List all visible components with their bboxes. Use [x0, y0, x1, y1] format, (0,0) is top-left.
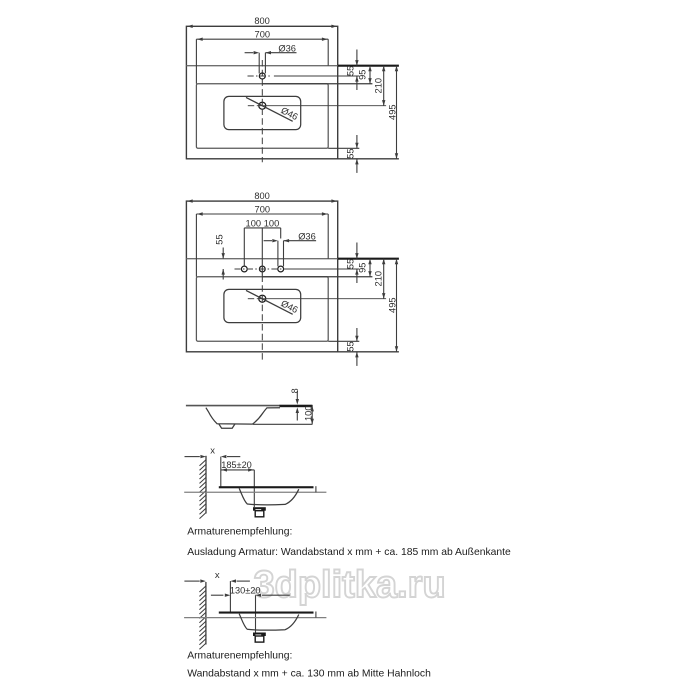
svg-text:130±20: 130±20: [230, 585, 261, 595]
drawing 4 wall mount view: dimension 185±20: [221, 469, 255, 471]
drawing 1 top plan single hole: outer basin outline rectangle: [186, 26, 337, 159]
drawing 1 top plan single hole: dimension 800 line with arrows: [187, 25, 193, 28]
drawing 2 plan three holes: outer basin outline rectangle: [186, 201, 337, 352]
drawing 5 wall mount view: dimension 130±20: [211, 594, 224, 596]
svg-text:Armaturenempfehlung:: Armaturenempfehlung:: [187, 650, 292, 661]
drawing 2 plan three holes: dimension 55 top right: [356, 243, 358, 259]
svg-text:495: 495: [387, 104, 397, 120]
drawing 1 top plan single hole: dimension 700 line: [196, 38, 328, 40]
side profile: bold deck section bar (8 mm): [280, 405, 313, 408]
drawing 4 wall mount view: deck front edge: [315, 486, 317, 492]
svg-text:55: 55: [345, 148, 355, 158]
drawing 1 top plan single hole: tap hole circle: [259, 73, 265, 79]
drawing 1 top plan single hole: dimension 495: [396, 66, 398, 159]
drawing 1 top plan single hole: back ledge extension line (bold) to right dims: [338, 65, 399, 67]
drawing 5 wall mount view: drain axis vertical line: [255, 595, 257, 632]
drawing 4 wall mount view: wall hatching: [200, 460, 207, 519]
drawing 2 plan three holes: tap holes centerline dash-dot: [235, 268, 288, 270]
drawing 5 wall mount view: drain tailpipe: [255, 636, 264, 642]
drawing 2 plan three holes: basin bowl rounded rectangle: [224, 289, 301, 322]
drawing 2 plan three holes: dimension 55 bottom right: [356, 328, 358, 341]
drawing 2 plan three holes: dimension 95: [369, 259, 371, 277]
drawing 4 wall mount view: drain nut (black): [253, 507, 266, 511]
drawing 2 plan three holes: Ø36 slot on right hole: [277, 241, 279, 267]
drawing 1 top plan single hole: drain centerline horizontal dash-dot: [248, 105, 254, 107]
drawing 1 top plan single hole: 700 extension line right: [327, 39, 329, 65]
svg-text:800: 800: [254, 16, 270, 26]
drawing 2 plan three holes: vertical centerline dashed: [261, 276, 263, 360]
drawing 1 top plan single hole: dimension 210: [383, 66, 385, 106]
drawing 2 plan three holes: dimension 495: [396, 259, 398, 352]
drawing 1 top plan single hole: diagonal leader for Ø46: [246, 97, 293, 121]
side profile: deck top line: [186, 405, 280, 407]
drawing 2 plan three holes: 700 extension line left (inner rect left edge up): [195, 214, 197, 277]
svg-text:210: 210: [374, 271, 384, 287]
drawing 5 wall mount view: long underside line: [184, 617, 326, 619]
svg-text:55: 55: [345, 341, 355, 351]
svg-text:55: 55: [346, 259, 356, 269]
drawing 1 top plan single hole: dimension 55 top right: [356, 50, 358, 66]
drawing 2 plan three holes: 100 100 extension drops: [243, 228, 245, 266]
svg-text:Ø36: Ø36: [278, 43, 296, 53]
drawing 1 top plan single hole: inner opening top edge darker overlay: [262, 83, 372, 85]
drawing 2 plan three holes: three tap hole circles: [241, 266, 247, 272]
side profile: dimension 8 arrows: [296, 391, 298, 399]
drawing 2 plan three holes: back ledge line: [186, 258, 337, 260]
svg-text:100: 100: [303, 405, 313, 421]
svg-text:Ausladung Armatur: Wandabstand: Ausladung Armatur: Wandabstand x mm + ca…: [187, 547, 511, 558]
drawing 2 plan three holes: dimension 700 line: [196, 213, 328, 215]
drawing 5 wall mount view: wall vertical line: [205, 582, 207, 645]
svg-text:100: 100: [246, 218, 262, 228]
drawing 2 plan three holes: back ledge extension line (bold) to right dims: [338, 258, 399, 260]
drawing 1 top plan single hole: basin bowl rounded rectangle: [224, 96, 301, 129]
svg-text:Armaturenempfehlung:: Armaturenempfehlung:: [187, 527, 292, 538]
svg-text:8: 8: [290, 388, 300, 393]
drawing 2 plan three holes: dimension 100 100 line: [244, 227, 280, 229]
svg-text:3dplitka.ru: 3dplitka.ru: [254, 564, 446, 606]
svg-text:x: x: [210, 446, 215, 457]
drawing 1 top plan single hole: right extension inner bottom: [328, 147, 359, 149]
drawing 5 wall mount view: deck front edge: [315, 612, 317, 618]
svg-text:95: 95: [357, 263, 367, 273]
drawing 1 top plan single hole: bottom edge extension: [338, 158, 399, 160]
drawing 2 plan three holes: left dimension 55 (ledge to holes): [222, 248, 224, 259]
drawing 4 wall mount view: reference vertical line: [220, 457, 222, 487]
drawing 5 wall mount view: reference vertical line: [229, 581, 231, 612]
drawing 2 plan three holes: right extension inner bottom: [328, 340, 359, 342]
side profile: bottom extension line for 100: [253, 423, 312, 425]
drawing 1 top plan single hole: tap hole centerline dash-dot: [248, 75, 271, 77]
drawing 4 wall mount view: wall vertical line: [205, 456, 207, 514]
svg-text:210: 210: [374, 78, 384, 94]
drawing 5 wall mount view: bowl profile: [239, 614, 299, 630]
side profile: dimension 100 line: [311, 405, 313, 424]
drawing 2 plan three holes: Ø36 leader line and arrows: [264, 240, 272, 242]
svg-text:x: x: [215, 570, 220, 581]
svg-text:55: 55: [346, 66, 356, 76]
drawing 4 wall mount view: deck section bar: [219, 486, 314, 488]
drawing 1 top plan single hole: Ø36 leader line and arrows: [245, 52, 254, 54]
drawing 2 plan three holes: drain hole circle Ø46: [259, 295, 266, 302]
drawing 1 top plan single hole: inner basin opening rectangle: [196, 84, 328, 149]
drawing 5 wall mount view: drain nut (black): [253, 633, 266, 637]
drawing 2 plan three holes: inner basin opening rectangle: [196, 277, 328, 342]
drawing 2 plan three holes: 700 extension line right: [327, 214, 329, 259]
drawing 5 wall mount view: deck section bar: [219, 612, 314, 614]
drawing 5 wall mount view: dimension x line: [184, 580, 199, 582]
drawing 4 wall mount view: drain tailpipe: [255, 511, 264, 517]
drawing 2 plan three holes: bottom edge extension: [338, 351, 399, 353]
svg-text:55: 55: [215, 234, 225, 244]
svg-text:800: 800: [254, 191, 270, 201]
drawing 4 wall mount view: drain axis vertical line: [253, 470, 255, 507]
drawing 5 wall mount view: wall hatching: [199, 586, 206, 649]
svg-text:100: 100: [264, 218, 280, 228]
svg-text:Ø36: Ø36: [298, 231, 316, 241]
drawing 1 top plan single hole: vertical centerline dashed: [261, 60, 263, 162]
drawing 2 plan three holes: drain centerline horizontal dash-dot: [248, 298, 254, 300]
side profile: bowl outline: [206, 408, 280, 424]
drawing 2 plan three holes: dimension 210: [383, 259, 385, 299]
drawing 2 plan three holes: dimension 800 line with arrows: [187, 199, 193, 202]
drawing 2 plan three holes: inner opening top edge darker overlay: [262, 276, 372, 278]
svg-text:95: 95: [357, 70, 367, 80]
drawing 4 wall mount view: long underside line: [184, 491, 326, 493]
drawing 1 top plan single hole: 700 extension line left (inner rect left edge up): [195, 39, 197, 83]
drawing 1 top plan single hole: dimension 55 bottom right: [356, 135, 358, 148]
drawing 4 wall mount view: dimension x line: [185, 456, 200, 458]
svg-text:185±20: 185±20: [221, 460, 252, 470]
svg-text:700: 700: [255, 204, 271, 214]
drawing 2 plan three holes: diagonal leader for Ø46: [246, 290, 293, 314]
drawing 4 wall mount view: bowl profile: [239, 488, 299, 504]
side profile: drain boss: [219, 424, 235, 428]
drawing 1 top plan single hole: back ledge line: [186, 65, 337, 67]
svg-text:Wandabstand x mm + ca. 130 mm: Wandabstand x mm + ca. 130 mm ab Mitte H…: [187, 669, 431, 680]
drawing 1 top plan single hole: tap hole slot: [258, 53, 260, 74]
drawing 1 top plan single hole: dimension 95: [369, 66, 371, 84]
svg-text:495: 495: [387, 297, 397, 313]
drawing 1 top plan single hole: drain hole circle Ø46: [259, 102, 266, 109]
svg-text:700: 700: [255, 30, 271, 40]
